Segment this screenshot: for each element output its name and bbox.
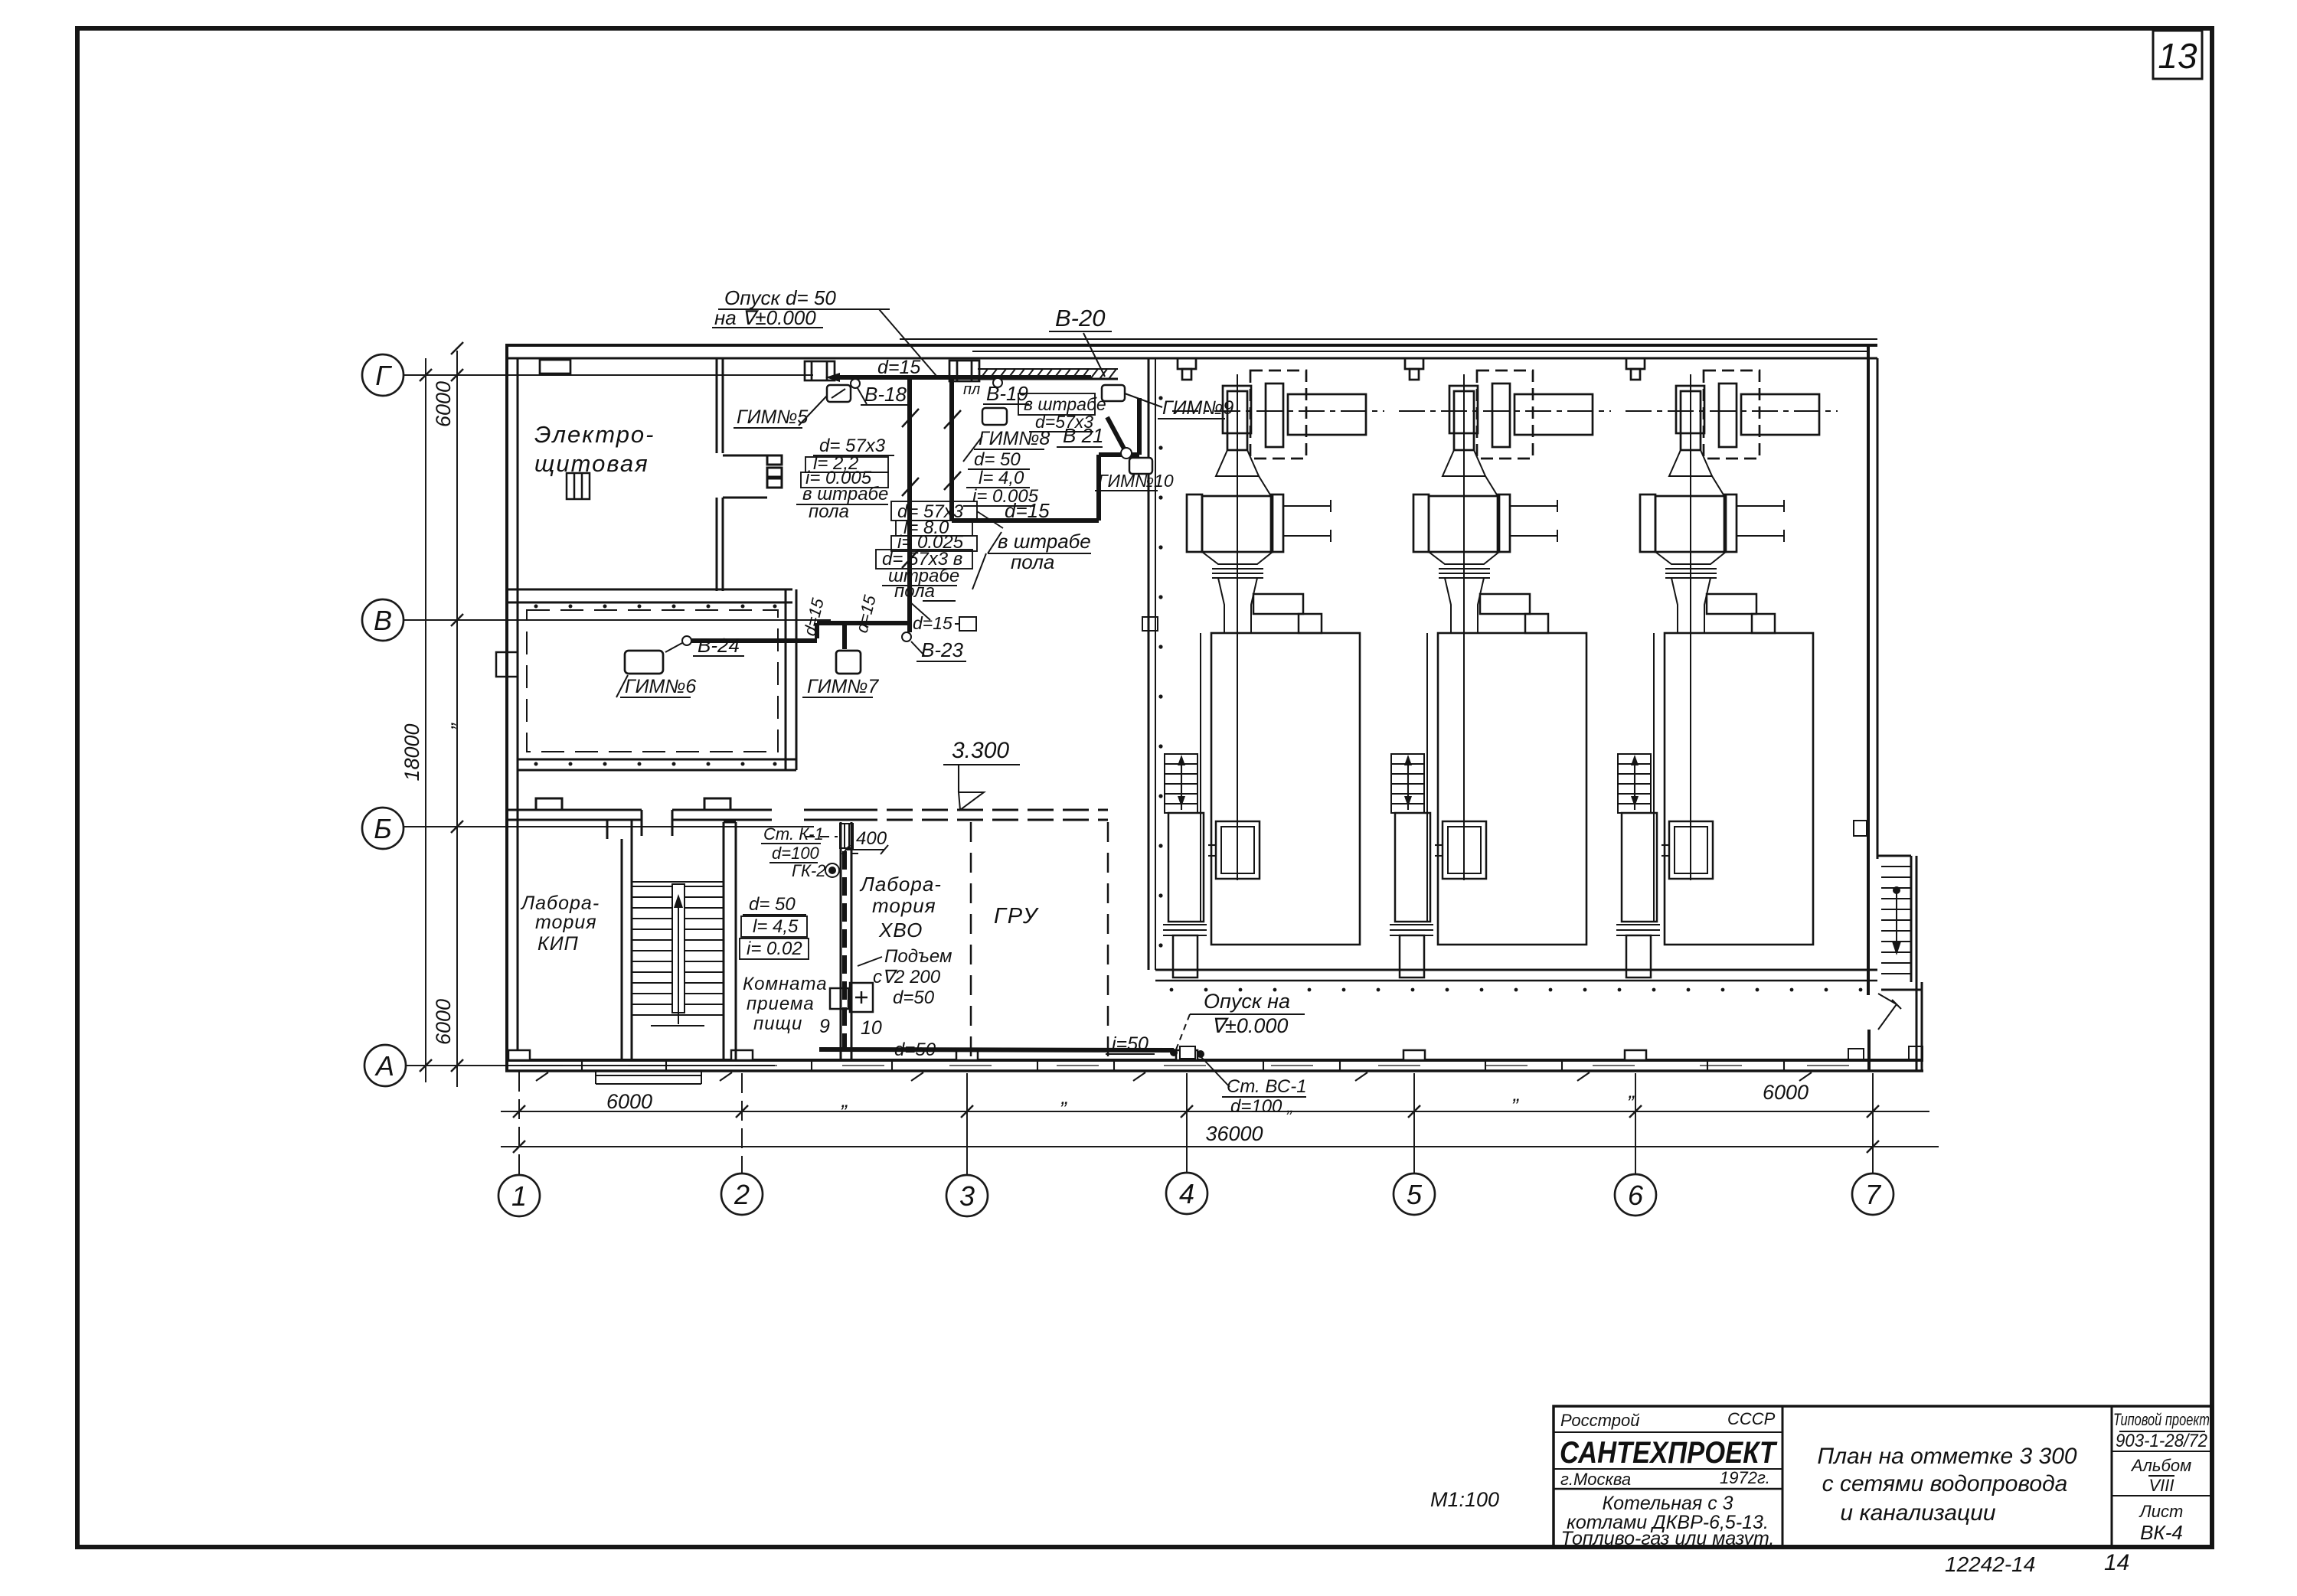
- wall between electrical room and vent chamber: [507, 589, 792, 591]
- label в штрабе пола lower: [998, 530, 1091, 573]
- axis extension lines to circles: [518, 1072, 520, 1175]
- vent chamber inner dashed outline: [527, 610, 778, 752]
- vent chamber walls: [785, 589, 787, 770]
- axis circle В: [362, 599, 404, 641]
- ГРУ east dashed partition: [1107, 822, 1109, 1060]
- south wall piers at axes: [508, 1050, 1646, 1060]
- south wall row А: [505, 1059, 1923, 1062]
- tick marks left chain: [420, 342, 463, 1072]
- valve В-24: [682, 636, 691, 645]
- svg-text:„: „: [435, 722, 458, 729]
- svg-text:Комната: Комната: [743, 974, 828, 994]
- title object name: [1561, 1493, 1775, 1549]
- svg-text:i=50: i=50: [1112, 1033, 1148, 1055]
- svg-text:М1:100: М1:100: [1430, 1488, 1499, 1511]
- svg-text:и канализации: и канализации: [1840, 1500, 1995, 1526]
- axis line А: [406, 1065, 775, 1066]
- svg-text:d=100 „: d=100 „: [1230, 1096, 1293, 1117]
- svg-text:Лабора-: Лабора-: [520, 893, 600, 914]
- axis line Б: [404, 826, 814, 827]
- stairwell walls: [622, 822, 736, 1060]
- svg-text:Котельная с 3: Котельная с 3: [1602, 1493, 1733, 1514]
- svg-text:d=15: d=15: [877, 357, 920, 378]
- svg-text:в штрабе: в штрабе: [998, 530, 1091, 553]
- svg-text:3: 3: [959, 1180, 975, 1212]
- left dimension chain total 18000: [425, 358, 426, 1082]
- svg-text:1: 1: [511, 1180, 527, 1212]
- boiler unit 3: [1616, 370, 1838, 978]
- door jamb stubs row Б: [641, 810, 643, 836]
- boiler hall inner south wall: [1155, 970, 1877, 991]
- svg-text:„: „: [841, 1088, 849, 1111]
- svg-text:А: А: [374, 1050, 394, 1082]
- instrument box ГИМ№8: [982, 408, 1007, 425]
- SE corner pier: [1909, 1046, 1923, 1060]
- valve В-19: [993, 378, 1002, 387]
- valve В-23: [902, 632, 911, 641]
- svg-text:„: „: [1513, 1082, 1521, 1105]
- pier axis 6: [1626, 358, 1645, 369]
- ГК-2 drain symbol: [828, 867, 836, 874]
- entrance porch below south wall: [596, 1071, 701, 1084]
- svg-text:ХВО: ХВО: [878, 919, 923, 942]
- pipe run in floor chase d=15: [952, 518, 1099, 523]
- stack labels d=57x3 в штрабе пола: [882, 549, 962, 602]
- boiler hall west wall: [1142, 358, 1163, 970]
- svg-text:6: 6: [1628, 1180, 1644, 1211]
- cleanout dots on waste pipe: [1170, 1049, 1178, 1056]
- row Б partition wall: [507, 798, 1108, 839]
- svg-text:В-18: В-18: [864, 383, 907, 406]
- axis circle 6: [1615, 1174, 1656, 1216]
- svg-text:l= 4,5: l= 4,5: [753, 916, 799, 937]
- svg-text:903-1-28/72: 903-1-28/72: [2116, 1431, 2207, 1451]
- svg-text:Г: Г: [375, 360, 392, 391]
- south wall window jambs: [582, 1060, 1784, 1071]
- svg-text:d=100: d=100: [772, 844, 820, 863]
- elevation mark 3.300: [943, 738, 1020, 810]
- north wall inner line: [505, 357, 1877, 360]
- svg-text:В-24: В-24: [698, 634, 740, 657]
- pier axis 5: [1405, 358, 1423, 369]
- svg-text:щитовая: щитовая: [534, 450, 649, 477]
- stack labels d=50 l=4.0 i=0.005: [972, 449, 1039, 507]
- axis circle 5: [1394, 1173, 1435, 1215]
- svg-text:Опуск на: Опуск на: [1204, 990, 1290, 1013]
- hatched pipe chase band: [978, 369, 1118, 379]
- west wall: [505, 345, 508, 1071]
- svg-text:9: 9: [819, 1016, 830, 1037]
- pipe riser 1: [907, 377, 912, 632]
- svg-text:5: 5: [1407, 1179, 1423, 1210]
- electrical room door niche: [723, 455, 767, 457]
- svg-text:пола: пола: [894, 581, 935, 602]
- svg-text:г.Москва: г.Москва: [1560, 1470, 1631, 1489]
- svg-text:d=50: d=50: [893, 987, 935, 1008]
- axis circle 4: [1166, 1173, 1207, 1214]
- left dim labels: [400, 381, 458, 1045]
- pipe labels d=50 l=4,5 i=0.02 boxed: [747, 894, 802, 959]
- svg-text:Электро-: Электро-: [534, 421, 655, 448]
- axis circle 1: [498, 1173, 1893, 1216]
- svg-text:ГИМ№7: ГИМ№7: [807, 676, 879, 697]
- axis line В: [404, 619, 831, 621]
- svg-text:Росстрой: Росстрой: [1560, 1411, 1639, 1430]
- svg-text:10: 10: [861, 1017, 882, 1039]
- bottom dimension chains: [501, 1072, 1939, 1175]
- svg-text:7: 7: [1865, 1179, 1882, 1210]
- svg-text:6000: 6000: [606, 1090, 652, 1113]
- left dimension chain 6000 segments: [456, 351, 458, 1087]
- axis circle 2: [721, 1173, 763, 1215]
- instrument box ГИМ№9: [1102, 385, 1125, 401]
- valve В-18: [851, 379, 860, 388]
- stub to ГИМ№7: [842, 623, 847, 649]
- svg-text:l= 4,0: l= 4,0: [979, 468, 1024, 488]
- svg-text:КИП: КИП: [537, 933, 579, 955]
- instrument box ГИМ№10: [1129, 458, 1152, 474]
- svg-text:тория: тория: [535, 912, 597, 933]
- axis circle А: [364, 1045, 406, 1086]
- svg-text:ГИМ№6: ГИМ№6: [625, 676, 696, 697]
- axis В mark on hall wall: [1142, 617, 1158, 631]
- svg-text:Ст. ВС-1: Ст. ВС-1: [1227, 1076, 1307, 1097]
- label Ст.К-1: [763, 824, 826, 880]
- east stairs annex: [1848, 821, 1922, 1071]
- svg-text:4: 4: [1179, 1178, 1194, 1209]
- foundation ticks below south wall: [536, 1072, 1812, 1081]
- north window band line: [972, 351, 1868, 352]
- svg-text:с сетями водопровода: с сетями водопровода: [1822, 1471, 2068, 1496]
- svg-text:36000: 36000: [1205, 1122, 1263, 1145]
- north wall outer line: [505, 344, 1877, 347]
- svg-text:14: 14: [2104, 1550, 2129, 1575]
- arrow at pipe west end: [825, 373, 840, 382]
- north parapet line: [900, 338, 1877, 340]
- east wall: [1867, 345, 1870, 995]
- svg-text:1972г.: 1972г.: [1720, 1468, 1770, 1487]
- svg-text:6000: 6000: [432, 381, 455, 427]
- pipe break ticks: [902, 409, 961, 568]
- svg-text:VIII: VIII: [2148, 1476, 2174, 1495]
- wall piers north: [540, 358, 1645, 381]
- svg-text:САНТЕХПРОЕКТ: САНТЕХПРОЕКТ: [1560, 1436, 1778, 1470]
- label в штрабе d=57x3 boxed: [1024, 394, 1106, 432]
- svg-text:6000: 6000: [432, 999, 455, 1045]
- branch to В-24: [817, 621, 910, 625]
- title sheet name: [1817, 1444, 2077, 1526]
- label Подъем с 2.200 d=50: [873, 946, 952, 1008]
- axis circle 3: [946, 1175, 988, 1216]
- svg-text:В 21: В 21: [1063, 424, 1104, 447]
- label Опуск на 0.000 right: [1204, 990, 1290, 1037]
- svg-text:Лист: Лист: [2139, 1502, 2184, 1521]
- stack labels d=57x3 l=8.0 i=0.025: [897, 501, 964, 553]
- stack Ст.К-1 symbol: [805, 824, 853, 848]
- stair direction arrow: [674, 894, 683, 1024]
- svg-text:ГИМ№5: ГИМ№5: [737, 406, 808, 428]
- svg-text:d= 50: d= 50: [749, 894, 796, 915]
- bottom chain 6000 bays: [501, 1111, 1929, 1112]
- label Опуск d=50 на 0.000: [714, 286, 836, 329]
- instrument box ГИМ№6: [625, 651, 663, 674]
- bottom chain total 36000: [501, 1146, 1939, 1147]
- svg-text:3.300: 3.300: [952, 738, 1009, 763]
- svg-text:с∇2 200: с∇2 200: [873, 967, 941, 987]
- axis line Г: [404, 374, 813, 376]
- svg-text:В: В: [374, 605, 392, 636]
- room Лаборатория ХВО: [859, 873, 942, 942]
- svg-text:6000: 6000: [1763, 1081, 1809, 1104]
- sink fixture: [830, 983, 873, 1012]
- annex stair arrow: [1892, 887, 1901, 955]
- svg-text:d=15: d=15: [800, 596, 828, 638]
- svg-text:12242-14: 12242-14: [1945, 1552, 2035, 1576]
- svg-text:Альбом: Альбом: [2130, 1456, 2191, 1475]
- stair treads: [632, 882, 723, 1026]
- svg-text:приема: приема: [747, 994, 815, 1014]
- svg-text:В-20: В-20: [1055, 305, 1105, 331]
- svg-text:Подъем: Подъем: [884, 946, 952, 967]
- room Лаборатория КИП: [520, 893, 600, 955]
- svg-text:ГИМ№10: ГИМ№10: [1098, 471, 1174, 491]
- canteen room east wall / lab ХВО west wall: [841, 822, 1108, 1060]
- svg-text:пл: пл: [963, 381, 980, 398]
- stack labels d=57x3 l=2.2 i=0.005: [805, 436, 886, 488]
- svg-text:СССР: СССР: [1727, 1409, 1776, 1428]
- svg-text:18000: 18000: [400, 723, 423, 781]
- annex stair treads: [1881, 867, 1911, 974]
- label Ст.ВС-1 d=100: [1227, 1076, 1307, 1117]
- room Электрощитовая: [534, 421, 655, 477]
- svg-text:Ст. К-1: Ст. К-1: [763, 824, 824, 844]
- electrical room east wall: [716, 358, 718, 453]
- west wall niche lower: [496, 652, 518, 677]
- chain tick marks: [513, 1105, 1879, 1153]
- axis circle Г: [362, 354, 406, 1086]
- pier axis 4: [1178, 358, 1196, 369]
- svg-text:i= 0.02: i= 0.02: [747, 938, 802, 959]
- svg-text:ГРУ: ГРУ: [994, 904, 1039, 929]
- pipe riser 2: [949, 377, 954, 521]
- svg-text:Лабора-: Лабора-: [859, 873, 942, 896]
- svg-text:Б: Б: [374, 813, 391, 844]
- instrument box ГИМ№7: [836, 651, 861, 674]
- axis circle 7: [1852, 1173, 1893, 1215]
- boiler unit 2: [1390, 370, 1611, 978]
- svg-text:пищи: пищи: [753, 1013, 802, 1034]
- svg-text:d=15: d=15: [913, 613, 952, 633]
- svg-text:d= 50: d= 50: [974, 449, 1021, 470]
- svg-text:d=15: d=15: [1005, 499, 1050, 522]
- label в штрабе пола: [802, 484, 888, 522]
- boiler unit 1: [1163, 370, 1384, 978]
- svg-text:d=15: d=15: [852, 592, 880, 635]
- bottom dim labels: [606, 1079, 1809, 1145]
- west wall niche upper: [496, 473, 590, 677]
- svg-text:тория: тория: [872, 894, 936, 917]
- hall west wall dots: [1158, 396, 1162, 947]
- stair stringer: [672, 884, 685, 1013]
- axis circle Б: [362, 808, 404, 849]
- waste pipe d=50 in lab: [819, 851, 1174, 1050]
- svg-text:Топливо-газ или мазут.: Топливо-газ или мазут.: [1561, 1528, 1775, 1549]
- svg-text:Типовой проект: Типовой проект: [2113, 1410, 2210, 1429]
- svg-text:ГК-2: ГК-2: [792, 861, 826, 880]
- svg-text:„: „: [1061, 1085, 1069, 1108]
- page number box: [2153, 31, 2202, 79]
- svg-text:400: 400: [856, 828, 887, 849]
- svg-text:„: „: [1629, 1079, 1636, 1102]
- svg-text:В-23: В-23: [921, 638, 963, 661]
- svg-text:d=50: d=50: [894, 1040, 936, 1060]
- main water pipe d=15 along north wall: [691, 377, 1139, 649]
- svg-text:2: 2: [734, 1179, 750, 1210]
- svg-text:ВК-4: ВК-4: [2140, 1521, 2183, 1544]
- lab ХВО east dashed partition: [970, 822, 972, 1060]
- svg-text:13: 13: [2158, 36, 2197, 76]
- room Комната приема пищи: [743, 974, 828, 1034]
- instrument box ГИМ№5: [827, 385, 851, 402]
- svg-text:∇±0.000: ∇±0.000: [1211, 1014, 1288, 1037]
- vent chamber tick dots: [534, 605, 777, 766]
- svg-text:План на отметке 3 300: План на отметке 3 300: [1817, 1444, 2077, 1469]
